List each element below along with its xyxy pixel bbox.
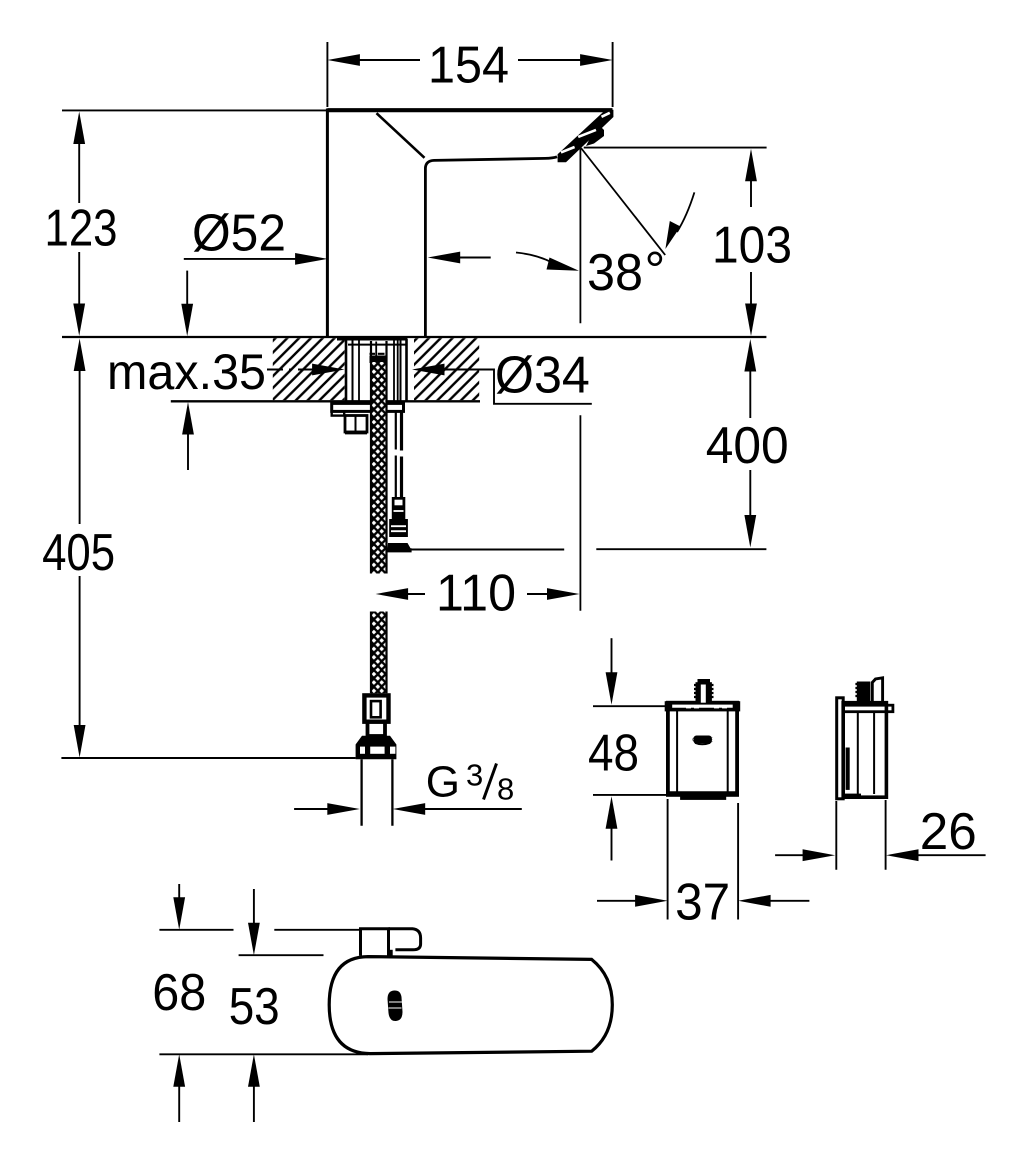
power box front: threaded nipple [694, 679, 714, 703]
threaded stud dark top nub [370, 356, 388, 364]
faucet shank through counter: outer walls [345, 339, 348, 403]
braided flex hose upper segment [371, 341, 387, 574]
svg-text:3: 3 [466, 757, 483, 792]
38 degree reference vertical line [579, 148, 581, 611]
power box side view: bottom dark bar [843, 794, 861, 799]
mounting nut below washer [345, 416, 367, 433]
dimension 53 [239, 889, 324, 1122]
svg-text:110: 110 [436, 565, 516, 623]
hose end fitting body [364, 695, 388, 721]
faucet top view: sensor window blob [388, 990, 403, 1021]
extension line left of faucet top for dim 123 [62, 109, 327, 111]
dimension diam 34 [267, 364, 592, 404]
dimension 37 [597, 799, 809, 920]
faucet side view: left body edge [326, 109, 329, 338]
hose fitting neck [368, 722, 386, 736]
shank inner shoulder line [348, 344, 406, 346]
svg-text:26: 26 [920, 803, 977, 861]
svg-text:400: 400 [706, 417, 789, 475]
faucet base line on counter [337, 337, 407, 340]
svg-text:8: 8 [497, 771, 514, 806]
power box side view: hook clip [872, 678, 882, 703]
svg-text:Ø34: Ø34 [495, 347, 590, 405]
svg-text:405: 405 [42, 524, 115, 582]
svg-text:38: 38 [587, 244, 643, 302]
faucet shank inner walls [358, 339, 360, 403]
power box front: dash-dot center line [671, 708, 734, 710]
faucet side view: right column edge with rounded corner to spout underside [425, 157, 557, 337]
dimension 103 right [584, 148, 767, 336]
countertop bottom surface line [171, 400, 480, 402]
svg-text:123: 123 [45, 200, 118, 258]
svg-text:154: 154 [428, 37, 509, 95]
dimension 110 [376, 588, 580, 600]
aerator mid bulge ear [586, 124, 604, 147]
dimension 48 [593, 638, 667, 860]
power box front: flange corner nubs [666, 703, 672, 710]
dimension diam 52 [184, 252, 491, 265]
G3/8 threaded pipe tail [362, 759, 393, 826]
stud thread dashes [370, 353, 385, 355]
power box side view: main body [843, 703, 886, 798]
dimension 68 [159, 884, 368, 1122]
dimension 400 right [412, 339, 767, 550]
countertop hatched section left [273, 338, 345, 400]
svg-text:48: 48 [588, 725, 639, 783]
power box front: bottom thick bar [670, 791, 736, 795]
hose end fitting inner slot [371, 701, 381, 717]
dimension 154 top [327, 42, 612, 107]
38 degree curved arrow left [516, 253, 579, 271]
faucet top view: body outline [329, 957, 612, 1054]
power supply box front view: outer body [668, 703, 737, 795]
power box side view: inner lines [858, 712, 874, 794]
svg-text:max.35: max.35 [107, 344, 266, 400]
aerator white slots [602, 113, 610, 117]
power box front: GROHE logo blob [692, 736, 713, 745]
G3/8 nut white windows [360, 747, 365, 754]
dimension G3/8 arrows [294, 803, 522, 815]
dimension 123 left [73, 112, 85, 337]
power box front: top flange [666, 703, 739, 710]
cable connector plug top [392, 497, 406, 519]
svg-text:103: 103 [712, 217, 792, 275]
38 degree curved arrow right [665, 192, 694, 249]
power box side view: threaded nipple [855, 682, 870, 703]
braided flex hose lower segment [371, 612, 387, 694]
stud center line above nub [375, 342, 377, 357]
sensor cable below shank [395, 412, 397, 450]
power box front: inner side walls [677, 710, 728, 793]
G3/8 slash [484, 764, 497, 800]
faucet top view: base tab left part [361, 929, 389, 956]
power box side view: dark bar on bracket [846, 748, 850, 790]
power box front: bottom dark strip [680, 795, 726, 800]
svg-text:GROHE: GROHE [692, 738, 713, 744]
dimension 405 left [61, 339, 355, 759]
G3/8 union nut [356, 736, 397, 759]
sensor cable lower piece after break [395, 456, 397, 498]
svg-text:Ø52: Ø52 [192, 205, 286, 263]
faucet side view: top surface [327, 108, 612, 112]
countertop hatched section right [414, 338, 479, 400]
cable connector plug body [389, 519, 408, 537]
38 degree slanted spray line [581, 148, 665, 255]
power box side view: top flange [843, 705, 893, 712]
faucet top view: tab small step [389, 950, 392, 957]
power box side view: wall bracket plate [837, 698, 844, 799]
faucet top view: base tab right part with rounded corner [389, 929, 421, 950]
faucet spout end face (aerator) dark band [558, 110, 614, 163]
svg-text:°: ° [645, 242, 666, 300]
cable connector flared base [386, 543, 412, 552]
countertop top surface line [62, 336, 766, 338]
svg-text:37: 37 [675, 874, 730, 932]
svg-text:G: G [426, 757, 460, 806]
svg-text:53: 53 [229, 978, 280, 1036]
svg-text:68: 68 [152, 964, 206, 1022]
faucet side view: inner slant edge [377, 113, 425, 158]
dimension max.35 arrows [181, 271, 194, 470]
dimension 26 [775, 800, 986, 870]
mounting washer plate below counter [332, 403, 404, 411]
washer left lip [332, 411, 345, 415]
